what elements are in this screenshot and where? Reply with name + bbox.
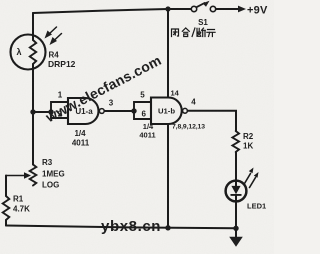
wire U1-b output to R2: [188, 111, 237, 131]
wire left rail middle: [32, 64, 34, 165]
ground: [229, 228, 243, 247]
node rail to gate input: [30, 109, 35, 114]
U1-b input tie box: [134, 102, 151, 119]
photoresistor R4 body zigzag: [30, 40, 36, 64]
wire R2 to LED: [235, 152, 237, 186]
U1-a input tie box: [51, 102, 68, 118]
switch S1: [191, 1, 215, 12]
light arrows into R4: [45, 27, 62, 45]
wire U1-a output to U1-b input: [104, 110, 134, 112]
wire bottom rail: [6, 226, 236, 229]
U1-a output bubble: [99, 109, 104, 114]
wire LED to ground rail: [235, 195, 237, 228]
resistor R2 zigzag: [232, 131, 239, 152]
wire pin14 vertical: [167, 9, 169, 98]
wire wiper to R1: [5, 176, 7, 197]
U1-b output bubble: [183, 108, 188, 113]
wire U1-b ground pins: [167, 124, 169, 228]
wire R1 to rail: [5, 220, 7, 226]
label 闭合/断开: [172, 28, 216, 37]
LED1 triangle: [231, 186, 240, 194]
LED1 cathode bar: [231, 194, 241, 196]
photoresistor R4 circle: [11, 35, 46, 70]
wire to U1-a inputs: [33, 111, 51, 113]
node U1-b pins to rail: [165, 225, 170, 230]
LED1 circle: [226, 181, 247, 202]
node LED to rail: [233, 226, 238, 231]
node top junction: [165, 6, 170, 11]
NAND gate U1-a (4011) body: [68, 98, 99, 124]
node U1-a input tie: [48, 109, 53, 114]
wire top rail: [33, 9, 191, 13]
LED1 emission arrows: [245, 168, 259, 188]
NAND gate U1-b (4011) body: [151, 98, 182, 125]
wire to +9V: [216, 8, 239, 10]
wire left rail top: [32, 13, 34, 40]
resistor R1 zigzag: [3, 196, 10, 220]
potentiometer R3 zigzag: [30, 165, 37, 186]
potentiometer R3 wiper arrow: [6, 172, 31, 178]
node U1-b input tie: [131, 108, 136, 113]
